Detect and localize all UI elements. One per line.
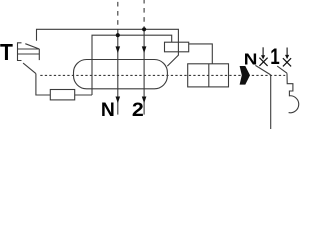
box1 (test resistor block) <box>165 42 189 52</box>
wire box1 to relay box2 <box>189 44 213 64</box>
arrowhead down pole N bottom <box>116 97 121 104</box>
resistor R (test) <box>50 90 74 100</box>
wire: line1 from test button up, right, down through R1 to toroid <box>37 29 179 66</box>
relay box2 divider <box>208 64 210 87</box>
terminal cross 1 <box>283 58 291 66</box>
wire: test button lower contact to resistor <box>36 74 50 95</box>
right pole contacts <box>255 65 298 129</box>
test button blade top <box>25 44 39 49</box>
junction dot pole 1 / line1 <box>142 27 146 31</box>
relay box2 <box>188 64 229 87</box>
arrow terminal N top <box>262 47 264 55</box>
mechanical linkage dashed line <box>40 74 285 76</box>
junction dot pole N / line2 <box>116 33 120 37</box>
arrowhead down pole N <box>116 46 121 53</box>
contact blade N <box>255 65 270 75</box>
svg-text:T: T <box>0 39 13 65</box>
test button contact bar lower <box>18 53 40 55</box>
test button right vertical <box>38 49 40 60</box>
solenoid / coil hook <box>287 73 299 113</box>
test button actuator bracket <box>18 43 22 61</box>
wire: resistor to test wire <box>75 94 92 96</box>
pole 1 solid conductor <box>143 29 145 114</box>
toroid (current transformer) <box>74 60 168 89</box>
conductor N down <box>270 75 272 129</box>
arrowhead down pole 1 bottom <box>142 97 147 104</box>
arrow terminal 1 top <box>286 48 288 56</box>
terminal cross N <box>259 58 267 66</box>
svg-text:N: N <box>244 50 258 68</box>
wire: line2 test wire through toroid <box>92 35 172 95</box>
pole 1 dashed incoming <box>143 0 145 29</box>
pole N conductor <box>118 0 144 115</box>
pole N dashed incoming <box>117 0 119 35</box>
pole N solid conductor <box>117 35 119 114</box>
test button contact bar upper <box>18 48 40 50</box>
mechanism wedge (trip pawl) <box>240 66 250 85</box>
svg-text:2: 2 <box>132 99 144 121</box>
svg-text:1: 1 <box>270 45 279 70</box>
test button lower blade <box>23 63 36 74</box>
svg-text:N: N <box>101 100 115 121</box>
arrowhead down pole 1 <box>142 46 147 53</box>
contact blade 1 <box>277 66 287 73</box>
